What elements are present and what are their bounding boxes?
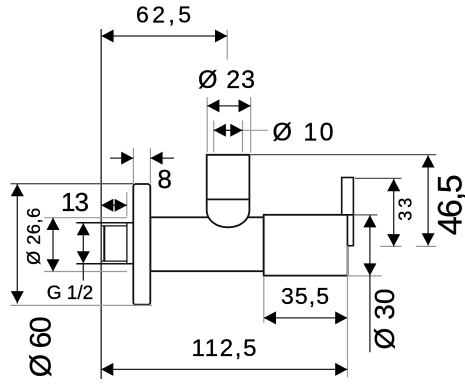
dim 62,5 wall to pipe axis [101,2,227,60]
svg-text:35,5: 35,5 [281,283,329,309]
node G1/2 thread stub [76,223,133,264]
dim 35,5 [264,277,348,324]
svg-text:62,5: 62,5 [136,2,191,28]
dim diameter 30 handle [348,215,400,352]
dim 8 rosette depth [110,148,174,194]
dim 46,5 overall height [249,155,465,247]
node stem upper [342,178,354,215]
svg-text:Ø 26,6: Ø 26,6 [24,208,44,265]
node outlet pipe O23 [207,155,250,228]
node valve body [150,217,263,271]
svg-text:13: 13 [61,187,89,217]
dim diameter 23 [198,66,255,153]
node stem lower [348,215,354,246]
svg-text:Ø 30: Ø 30 [369,289,400,350]
node handle cylinder O30 [264,215,348,276]
svg-text:Ø 10: Ø 10 [273,119,334,147]
svg-text:46,5: 46,5 [432,174,465,235]
svg-text:112,5: 112,5 [192,335,257,362]
wire pipe shoulder line [207,198,250,200]
dim G 1/2 thread callout [47,223,93,304]
dim diameter 26,6 [24,208,127,272]
dim diameter 60 rosette [11,184,153,378]
dim 13 thread length [61,187,127,217]
svg-text:G 1/2: G 1/2 [47,283,93,304]
dim 112,5 overall length [101,246,347,378]
node flange rosette O60 [133,184,150,305]
svg-text:Ø 23: Ø 23 [198,66,255,94]
svg-text:8: 8 [157,164,171,194]
svg-text:Ø 60: Ø 60 [25,316,58,377]
dim diameter 10 bore [214,119,334,153]
dim 33 [355,178,416,246]
wire wall plane extension line [100,29,102,379]
